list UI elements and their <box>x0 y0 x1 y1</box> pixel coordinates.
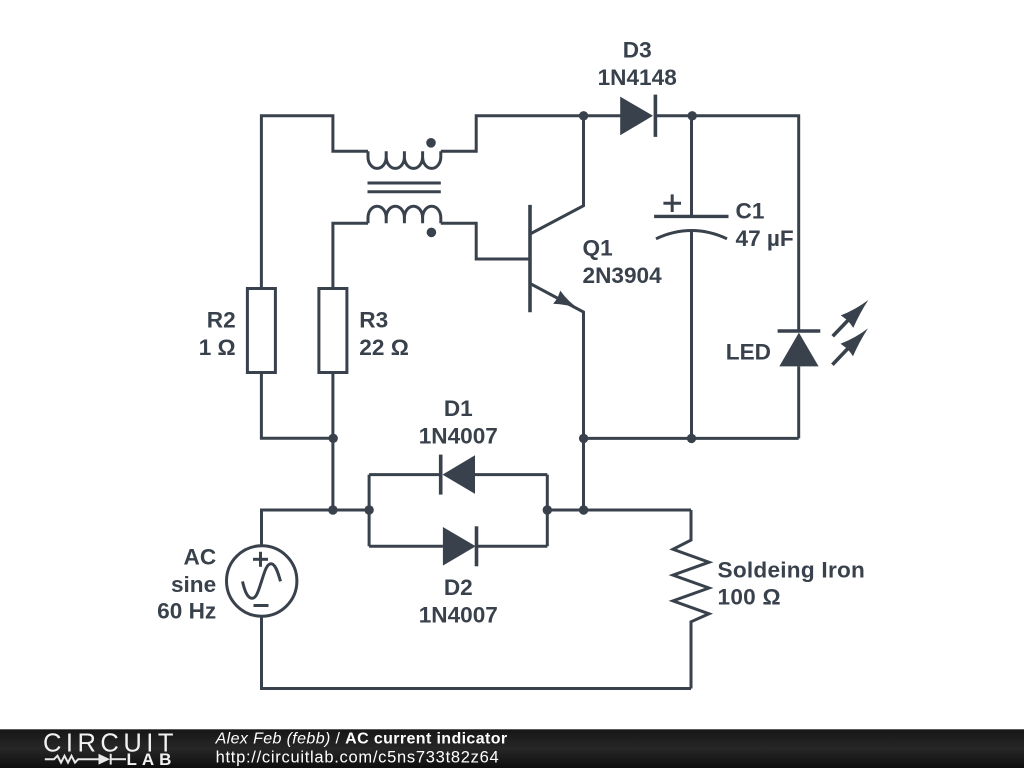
resistor R3 body <box>319 289 347 373</box>
svg-text:1N4148: 1N4148 <box>598 65 677 90</box>
svg-text:LAB: LAB <box>127 750 177 768</box>
resistor R4 soldering iron zigzag <box>673 510 709 689</box>
svg-text:D3: D3 <box>623 38 652 63</box>
LED arrow 2 <box>832 328 868 364</box>
wire secondary left to R3 top <box>333 223 368 288</box>
logo CIRCUIT text <box>43 729 178 757</box>
LED arrow 1 <box>833 300 869 336</box>
capacitor C1 <box>654 116 728 439</box>
logo squiggle resistor diode <box>45 754 126 765</box>
svg-text:R3: R3 <box>359 307 388 332</box>
footer url <box>216 748 500 766</box>
label D1 value <box>419 396 498 448</box>
svg-text:AC: AC <box>184 544 217 569</box>
diode D1 <box>369 455 547 495</box>
label soldering iron <box>718 557 866 609</box>
polarity dot primary <box>426 138 436 148</box>
node dot R2 R3 bottom junction <box>329 434 338 443</box>
node dot cap bottom <box>687 434 696 443</box>
polarity dot secondary <box>427 228 437 238</box>
svg-text:Alex Feb (febb) / AC current i: Alex Feb (febb) / AC current indicator <box>215 730 508 747</box>
svg-text:D2: D2 <box>444 575 473 600</box>
node dot D3 cathode C1 top <box>688 111 697 120</box>
wire primary right to top rail <box>441 116 584 152</box>
svg-text:Soldeing Iron: Soldeing Iron <box>718 557 866 582</box>
wire D3 cathode to right rail <box>692 116 799 330</box>
wire R3 bottom down to rail <box>331 373 334 511</box>
wire rail y510 right part <box>547 509 691 512</box>
wire AC top to rail y510 <box>262 510 370 546</box>
svg-text:LED: LED <box>726 339 771 364</box>
wire secondary right to Q1 base <box>441 223 529 259</box>
label R2 value <box>199 307 236 360</box>
wire top-left loop R2 top to primary left <box>261 116 368 289</box>
label C1 value <box>736 199 794 252</box>
label AC source <box>157 544 216 623</box>
node dot D3 anode <box>579 111 588 120</box>
diode D2 <box>369 526 547 566</box>
label Q1 value <box>583 235 663 288</box>
footer author title <box>215 730 508 747</box>
wire emitter rail <box>584 437 799 440</box>
wire AC bottom rail <box>262 616 692 688</box>
svg-text:100 Ω: 100 Ω <box>718 585 781 610</box>
node dot R3 rail <box>328 505 337 514</box>
label R3 value <box>359 307 409 360</box>
transistor Q1 <box>530 116 584 510</box>
wire R2 bottom to junction <box>261 373 333 439</box>
inductor L1 primary winding <box>368 151 441 168</box>
resistor R2 body <box>247 289 275 373</box>
svg-text:60 Hz: 60 Hz <box>157 599 216 624</box>
AC source V1 <box>227 546 297 616</box>
LED D4 <box>778 331 821 438</box>
svg-text:C1: C1 <box>736 199 765 224</box>
diode bridge left vertical <box>368 475 371 547</box>
svg-text:1N4007: 1N4007 <box>419 424 498 449</box>
node dot emitter rail y510 <box>579 505 588 514</box>
diode bridge right vertical <box>546 475 549 547</box>
node dot emitter cap rail <box>579 434 588 443</box>
label LED <box>726 339 771 364</box>
svg-text:sine: sine <box>171 572 216 597</box>
svg-text:2N3904: 2N3904 <box>583 263 663 288</box>
logo LAB text <box>127 750 177 768</box>
svg-text:47 µF: 47 µF <box>736 226 794 251</box>
svg-text:1 Ω: 1 Ω <box>199 335 236 360</box>
node dot bridge left <box>364 505 373 514</box>
inductor L2 secondary winding <box>368 206 441 223</box>
svg-text:R2: R2 <box>207 307 236 332</box>
svg-text:22 Ω: 22 Ω <box>359 335 409 360</box>
node dot bridge right <box>543 505 552 514</box>
svg-text:1N4007: 1N4007 <box>419 603 498 628</box>
svg-text:D1: D1 <box>444 396 473 421</box>
diode D3 <box>584 95 693 137</box>
transformer core <box>368 183 441 192</box>
svg-text:http://circuitlab.com/c5ns733t: http://circuitlab.com/c5ns733t82z64 <box>216 748 500 766</box>
footer bar <box>0 729 1024 768</box>
label D3 value <box>598 38 677 90</box>
svg-text:Q1: Q1 <box>583 235 613 260</box>
label D2 value <box>419 575 498 627</box>
